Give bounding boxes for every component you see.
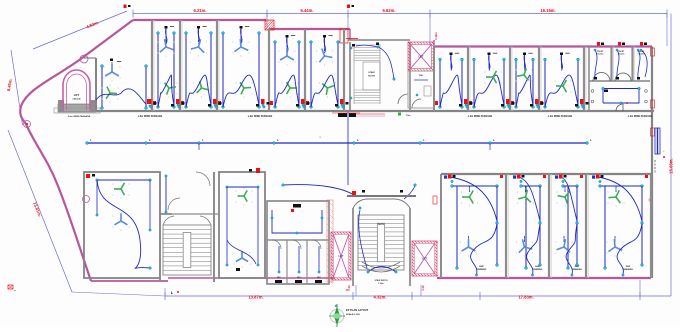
svg-text:WC: WC — [297, 277, 301, 279]
svg-text:TOIL: TOIL — [419, 75, 425, 77]
svg-text:▪▪▪: ▪▪▪ — [14, 290, 16, 292]
svg-text:13.87m.: 13.87m. — [248, 295, 263, 300]
svg-text:DHP: DHP — [479, 266, 484, 268]
svg-text:2.45x2.45: 2.45x2.45 — [73, 98, 81, 101]
svg-text:DRAWING: DRAWING — [623, 268, 633, 271]
svg-text:WC: WC — [277, 277, 281, 279]
svg-text:STAIR: STAIR — [368, 71, 375, 74]
svg-text:SCALE 1:100: SCALE 1:100 — [346, 313, 360, 316]
svg-text:▪: ▪ — [319, 135, 320, 139]
svg-text:▪: ▪ — [664, 150, 665, 153]
svg-text:LIFT: LIFT — [422, 258, 428, 261]
svg-text:x.2m WIDE PASSAGE: x.2m WIDE PASSAGE — [548, 115, 573, 118]
svg-text:1.2x2.0m: 1.2x2.0m — [638, 54, 645, 56]
svg-text:DHP: DHP — [626, 266, 631, 268]
svg-text:LIFT: LIFT — [74, 93, 80, 97]
svg-text:6.44m.: 6.44m. — [300, 8, 313, 13]
svg-text:x.2m WIDE PASSAGE: x.2m WIDE PASSAGE — [628, 115, 653, 118]
svg-text:DRAWING: DRAWING — [572, 268, 582, 271]
svg-text:0.29: 0.29 — [421, 285, 425, 291]
svg-text:6.21m.: 6.21m. — [193, 8, 206, 13]
svg-text:2.0m WIDE PASSAGE: 2.0m WIDE PASSAGE — [68, 115, 91, 118]
svg-text:ROOM: ROOM — [368, 76, 375, 78]
svg-text:0.29m: 0.29m — [434, 32, 438, 40]
svg-text:1.5m: 1.5m — [406, 115, 411, 117]
svg-text:DRAWING: DRAWING — [477, 268, 487, 271]
svg-text:STAIR WIDTH: STAIR WIDTH — [375, 279, 389, 282]
svg-text:LIFT: LIFT — [338, 255, 344, 258]
svg-text:EF PLAN LAYOUT: EF PLAN LAYOUT — [346, 308, 369, 312]
svg-text:WC: WC — [317, 277, 321, 279]
svg-text:DHP: DHP — [535, 266, 540, 268]
svg-text:x.2m WIDE PASSAGE: x.2m WIDE PASSAGE — [248, 115, 273, 118]
svg-text:TOILET: TOILET — [597, 51, 604, 53]
svg-text:DHP: DHP — [575, 266, 580, 268]
svg-text:x.2m WIDE PASSAGE: x.2m WIDE PASSAGE — [468, 115, 493, 118]
svg-text:1.00m: 1.00m — [378, 283, 384, 285]
svg-text:4.32m.: 4.32m. — [373, 295, 386, 300]
svg-text:SATH: SATH — [378, 223, 385, 226]
svg-text:x.2m WIDE PASSAGE: x.2m WIDE PASSAGE — [138, 115, 163, 118]
svg-text:6.62m.: 6.62m. — [382, 8, 395, 13]
svg-text:TOILET: TOILET — [618, 51, 625, 53]
svg-text:15.05m.: 15.05m. — [669, 158, 674, 173]
svg-text:16.16m.: 16.16m. — [540, 8, 555, 13]
svg-text:1.2x2.0m: 1.2x2.0m — [597, 54, 604, 56]
svg-text:DRAWING: DRAWING — [533, 268, 543, 271]
svg-text:LIFT: LIFT — [418, 56, 424, 59]
svg-text:17.83m.: 17.83m. — [518, 295, 533, 300]
